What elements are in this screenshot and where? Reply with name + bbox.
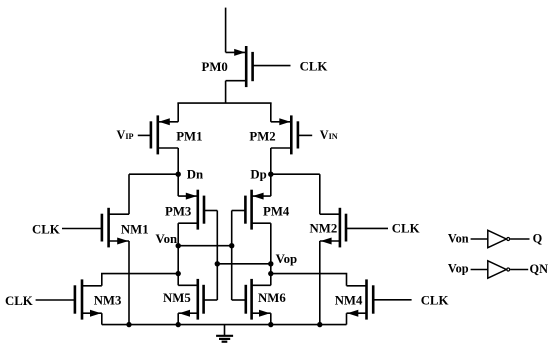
- junction NM1 source on rail: [126, 322, 131, 327]
- node Vop right: [268, 261, 273, 266]
- wire node Dp to NM2 drain column: [271, 173, 320, 175]
- transistor NM6: [232, 279, 271, 320]
- junction NM6 source on rail: [268, 322, 273, 327]
- transistor PM2: [271, 115, 312, 154]
- transistor NM1: [62, 208, 129, 248]
- node Von left: [176, 243, 181, 248]
- node Von at PM4 gate column: [229, 243, 234, 248]
- svg-text:Von: Von: [448, 232, 469, 246]
- wire top rail: [177, 102, 271, 104]
- transistor NM3: [36, 279, 102, 319]
- wire NM2 drain column: [319, 174, 321, 214]
- svg-text:PM3: PM3: [165, 205, 191, 219]
- svg-text:NM2: NM2: [310, 221, 338, 235]
- top supply stub: [225, 8, 227, 53]
- inverter U1: [488, 230, 510, 247]
- junction NM5 source on rail: [176, 322, 181, 327]
- ground symbol: [216, 325, 233, 342]
- wire PM4 drain to node Vop: [270, 223, 272, 264]
- junction NM2 source on rail: [317, 322, 322, 327]
- wire Von to inverter U1: [471, 238, 488, 240]
- wire NM6 source to ground rail: [270, 313, 272, 324]
- svg-text:PM1: PM1: [176, 130, 202, 144]
- svg-text:PM0: PM0: [202, 60, 228, 74]
- svg-text:Vop: Vop: [448, 261, 469, 275]
- wire Dn to PM3 source: [177, 174, 179, 196]
- transistor PM1: [138, 115, 178, 154]
- wire NM3 source to ground rail: [101, 313, 103, 324]
- transistor NM2: [320, 208, 388, 248]
- svg-text:QN: QN: [530, 262, 549, 276]
- junction Vop / NM4 reset wire: [268, 271, 273, 276]
- node Dp: [268, 172, 273, 177]
- node Vop at PM3 gate column: [215, 261, 220, 266]
- wire rail to PM2 source: [270, 103, 272, 122]
- svg-text:CLK: CLK: [392, 221, 420, 235]
- svg-text:CLK: CLK: [300, 60, 328, 74]
- svg-text:NM5: NM5: [163, 291, 191, 305]
- svg-text:NM3: NM3: [94, 294, 122, 308]
- wire PM1 drain to node Dn: [177, 148, 179, 174]
- wire Von line: [178, 245, 232, 247]
- svg-text:PM2: PM2: [249, 130, 275, 144]
- svg-text:PM4: PM4: [263, 205, 290, 219]
- wire Von junction to NM5 drain: [177, 274, 179, 286]
- junction Von / NM3 reset wire: [176, 271, 181, 276]
- wire inverter U2 to QN: [510, 269, 528, 271]
- node Dn: [176, 172, 181, 177]
- transistor PM0: [226, 46, 291, 87]
- wire NM4 source to ground rail: [346, 313, 348, 324]
- transistor PM4: [232, 190, 271, 230]
- wire inverter U1 to Q: [510, 238, 529, 240]
- svg-text:NM6: NM6: [258, 291, 286, 305]
- svg-text:Von: Von: [156, 232, 178, 246]
- wire Vop junction to NM6 drain: [270, 274, 272, 286]
- svg-text:CLK: CLK: [5, 294, 33, 308]
- transistor NM5: [178, 279, 217, 320]
- transistor PM3: [178, 190, 217, 230]
- svg-text:Dn: Dn: [187, 168, 203, 182]
- transistor NM4: [347, 279, 412, 319]
- wire PM2 drain to node Dp: [270, 148, 272, 174]
- wire Vop line: [217, 263, 270, 265]
- wire Vop to inverter U2: [471, 269, 488, 271]
- wire node Dn to NM1 drain column: [129, 173, 178, 175]
- wire Dp to PM4 source: [270, 174, 272, 196]
- wire cross-couple column PM3 gate to NM5 gate: [216, 211, 218, 301]
- wire NM3 drain to Von junction: [102, 274, 178, 286]
- wire rail to PM1 source: [177, 103, 179, 122]
- wire PM3 drain to node Von: [177, 223, 179, 246]
- wire Von column down to reset junction: [177, 246, 179, 274]
- wire NM5 source to ground rail: [177, 313, 179, 324]
- svg-text:Vop: Vop: [276, 252, 298, 266]
- svg-text:CLK: CLK: [421, 293, 449, 307]
- wire PM0 drain to top rail: [225, 81, 227, 103]
- wire NM1 source to ground rail: [128, 241, 130, 325]
- svg-text:Q: Q: [533, 232, 543, 246]
- wire Vop column down to reset junction: [270, 264, 272, 274]
- wire NM2 source to ground rail: [319, 241, 321, 325]
- svg-text:Dp: Dp: [250, 168, 266, 182]
- svg-text:NM4: NM4: [335, 293, 363, 307]
- inverter U2: [488, 261, 510, 278]
- wire NM4 drain to Vop junction: [271, 274, 347, 286]
- wire cross-couple column PM4 gate to NM6 gate: [231, 211, 233, 301]
- svg-text:CLK: CLK: [32, 222, 60, 236]
- wire ground rail: [102, 324, 347, 326]
- wire NM1 drain column: [128, 174, 130, 214]
- svg-text:NM1: NM1: [121, 222, 149, 236]
